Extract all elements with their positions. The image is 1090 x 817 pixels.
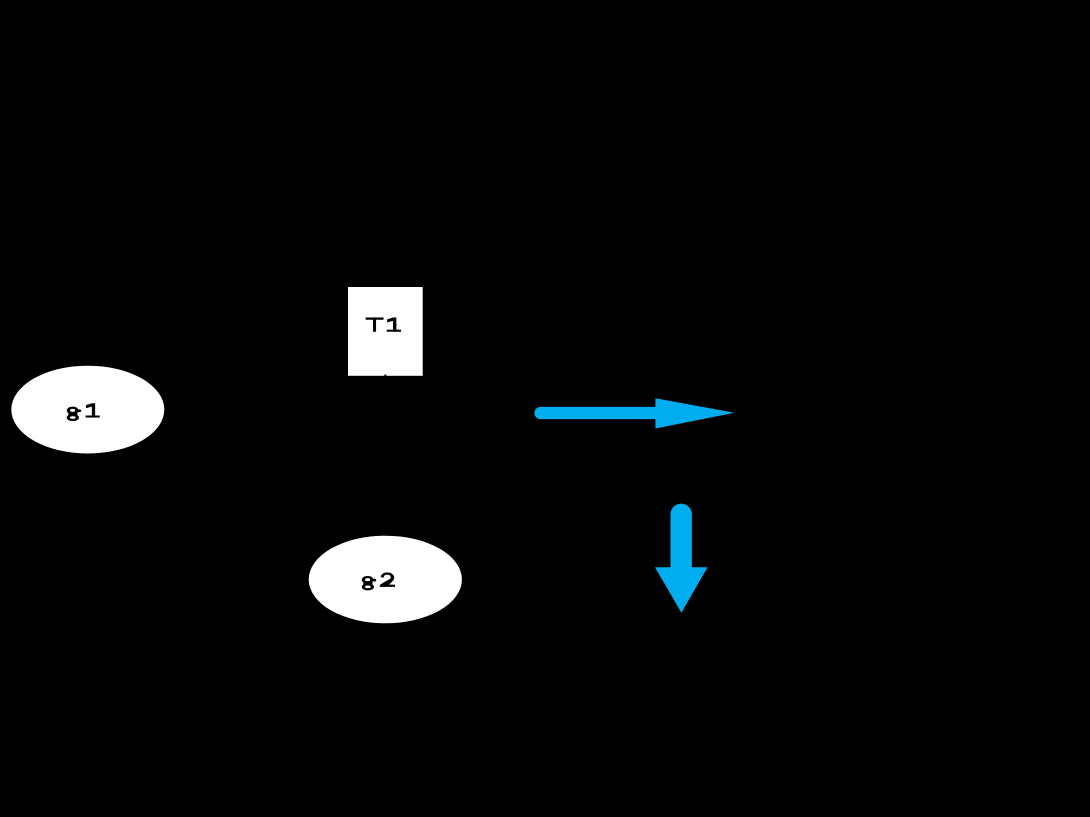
edge stub notch at T1 bottom — [384, 375, 386, 376]
node g1 ellipse — [11, 366, 164, 454]
arrow right shaft — [541, 407, 657, 419]
arrow right head — [655, 398, 734, 428]
arrow down head — [655, 567, 708, 613]
node g2 label — [362, 573, 395, 590]
node g1 label — [67, 404, 100, 421]
arrow down shaft — [671, 514, 692, 567]
node T1 label — [366, 318, 401, 332]
node g2 ellipse — [309, 536, 462, 624]
node T1 box — [348, 287, 423, 376]
